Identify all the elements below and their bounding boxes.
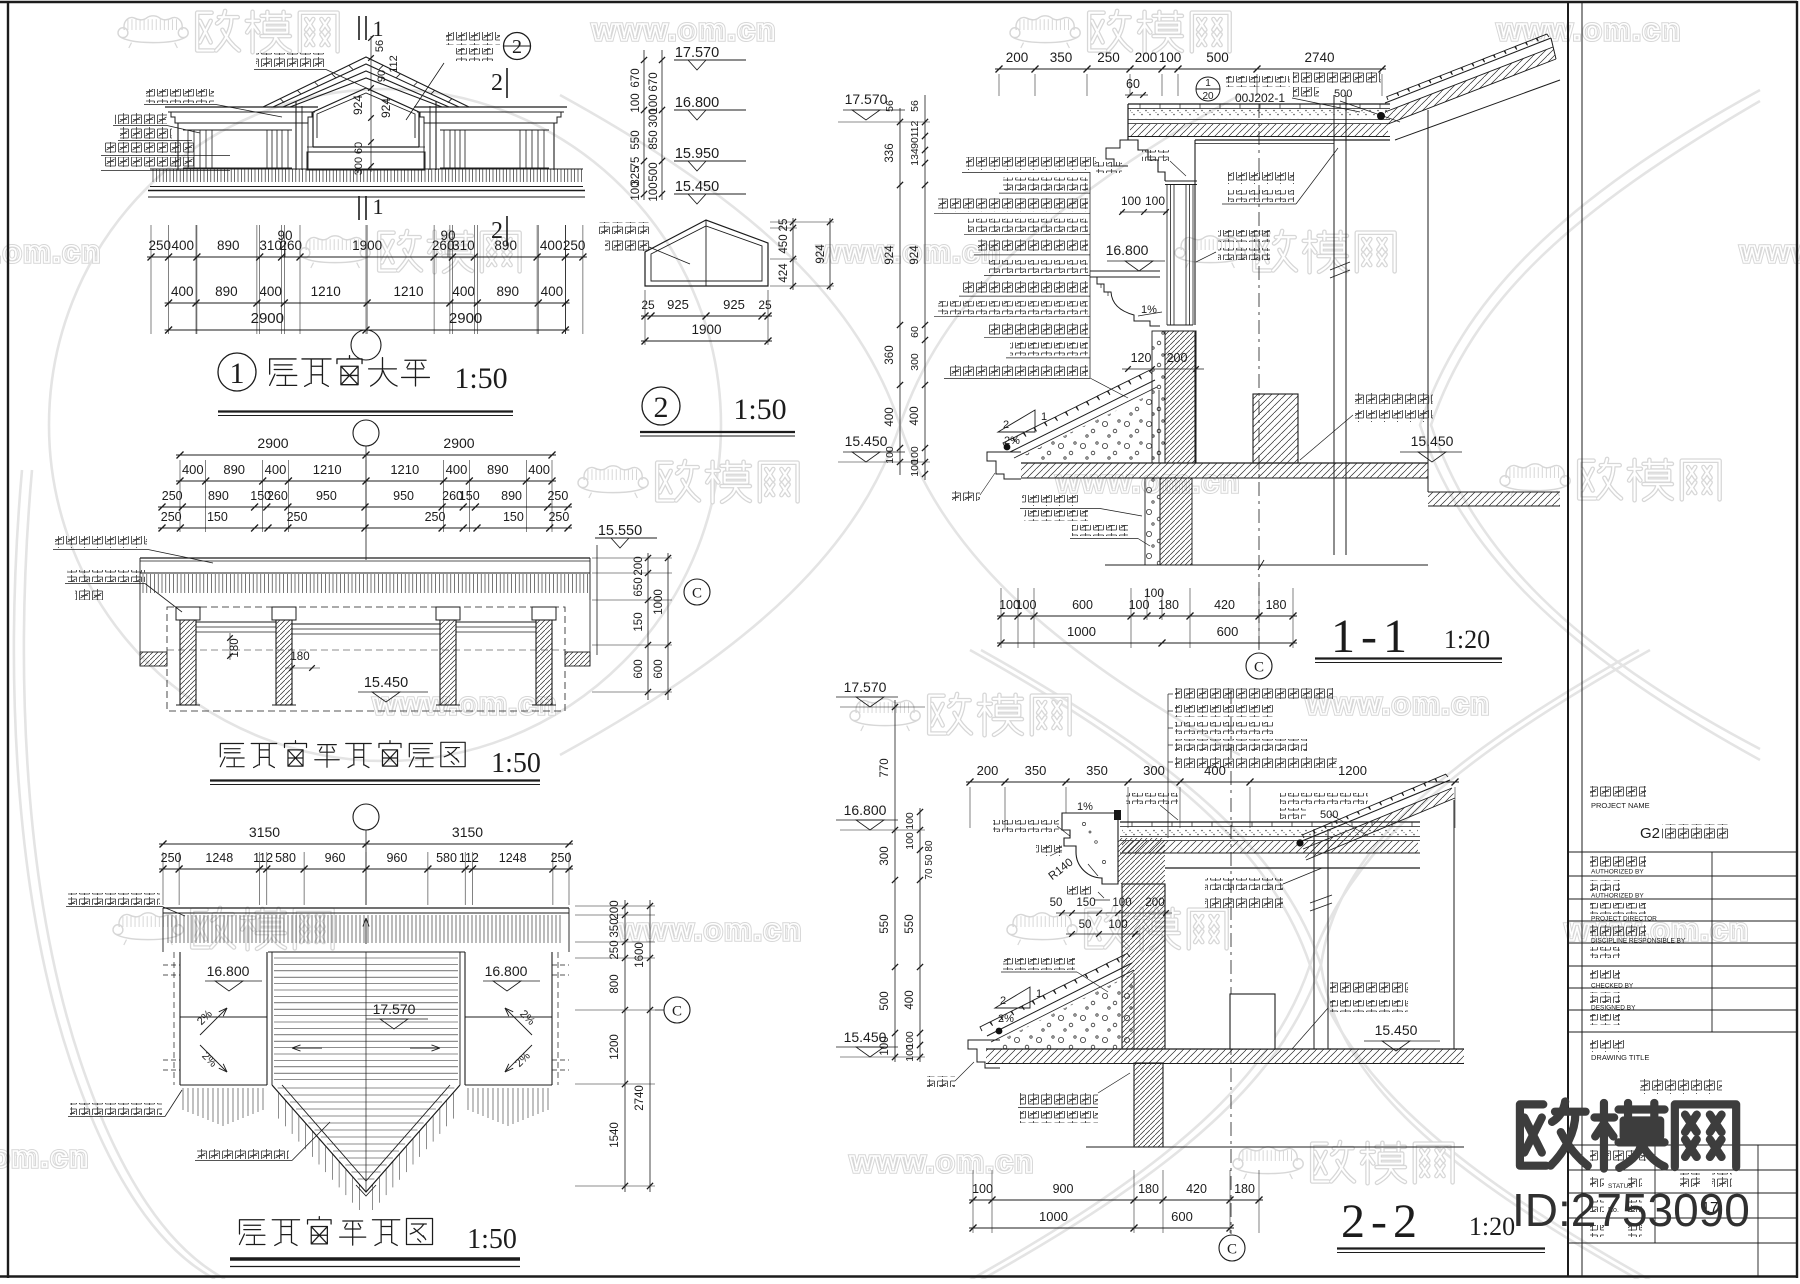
svg-text:15.450: 15.450 [1375, 1022, 1418, 1038]
svg-text:C: C [672, 1004, 682, 1020]
svg-text:400: 400 [909, 406, 921, 425]
svg-text:80: 80 [924, 840, 935, 852]
svg-text:2-2: 2-2 [1341, 1195, 1423, 1248]
svg-text:1200: 1200 [609, 1034, 621, 1060]
svg-text:1:20: 1:20 [1469, 1212, 1515, 1241]
svg-text:60: 60 [1126, 77, 1140, 91]
svg-text:360: 360 [884, 345, 896, 364]
svg-text:AUTHORIZED BY: AUTHORIZED BY [1591, 869, 1644, 876]
svg-text:1: 1 [1205, 78, 1211, 89]
svg-text:15.450: 15.450 [1411, 433, 1454, 449]
svg-text:350: 350 [1050, 50, 1073, 65]
svg-text:100: 100 [630, 181, 642, 200]
svg-text:C: C [692, 586, 702, 602]
svg-text:17.570: 17.570 [373, 1001, 416, 1017]
svg-text:1210: 1210 [393, 284, 423, 299]
svg-text:600: 600 [653, 659, 665, 678]
svg-text:60: 60 [909, 326, 921, 338]
svg-text:250: 250 [609, 940, 621, 959]
svg-text:1: 1 [373, 194, 384, 219]
svg-text:100: 100 [904, 1044, 916, 1062]
svg-text:400: 400 [884, 407, 896, 426]
svg-text:924: 924 [351, 95, 365, 115]
svg-text:2: 2 [512, 36, 522, 58]
svg-text:112: 112 [909, 120, 921, 137]
svg-text:15.550: 15.550 [598, 523, 642, 539]
svg-text:100: 100 [879, 1036, 891, 1055]
svg-text:2: 2 [1000, 995, 1006, 1007]
svg-text:200: 200 [1167, 351, 1188, 365]
svg-text:924: 924 [379, 98, 393, 118]
svg-text:150: 150 [207, 510, 228, 524]
svg-text:580: 580 [436, 851, 457, 865]
svg-text:180: 180 [1234, 1182, 1255, 1196]
svg-text:20: 20 [1202, 91, 1214, 102]
svg-text:890: 890 [501, 489, 522, 503]
svg-text:400: 400 [182, 462, 204, 477]
svg-text:1210: 1210 [311, 284, 341, 299]
svg-text:960: 960 [325, 851, 346, 865]
svg-text:890: 890 [487, 462, 509, 477]
svg-text:1:20: 1:20 [1444, 625, 1490, 654]
svg-text:15.450: 15.450 [845, 433, 888, 449]
svg-text:300: 300 [648, 108, 660, 127]
svg-text:1000: 1000 [1067, 624, 1096, 639]
svg-text:400: 400 [904, 990, 916, 1009]
svg-text:600: 600 [633, 659, 645, 678]
svg-text:1000: 1000 [653, 589, 665, 615]
svg-text:DRAWING TITLE: DRAWING TITLE [1591, 1053, 1649, 1062]
svg-text:300: 300 [879, 846, 891, 865]
svg-text:100: 100 [884, 446, 896, 464]
svg-text:400: 400 [452, 284, 475, 299]
svg-text:900: 900 [1053, 1182, 1074, 1196]
svg-text:100: 100 [1159, 50, 1182, 65]
svg-text:C: C [1254, 660, 1264, 676]
svg-text:25: 25 [758, 298, 772, 312]
svg-text:250: 250 [149, 238, 172, 253]
svg-text:112: 112 [459, 851, 479, 865]
svg-text:90: 90 [440, 228, 455, 243]
svg-text:300: 300 [353, 157, 365, 175]
svg-text:100: 100 [1016, 598, 1037, 612]
svg-text:PROJECT NAME: PROJECT NAME [1591, 801, 1650, 810]
svg-text:250: 250 [161, 851, 182, 865]
svg-text:400: 400 [540, 238, 563, 253]
svg-text:DESIGNED BY: DESIGNED BY [1591, 1005, 1636, 1012]
svg-text:670: 670 [648, 72, 660, 91]
svg-text:500: 500 [1206, 50, 1229, 65]
svg-text:670: 670 [630, 68, 642, 87]
svg-text:250: 250 [548, 510, 569, 524]
svg-text:200: 200 [1006, 50, 1029, 65]
svg-text:1: 1 [1036, 988, 1042, 1000]
svg-text:3150: 3150 [452, 824, 483, 840]
svg-text:3150: 3150 [249, 824, 280, 840]
svg-text:17.570: 17.570 [844, 679, 887, 695]
svg-text:www.om.cn: www.om.cn [849, 1144, 1035, 1179]
svg-text:250: 250 [287, 510, 308, 524]
svg-text:1600: 1600 [634, 942, 646, 968]
svg-text:400: 400 [172, 238, 195, 253]
svg-text:16.800: 16.800 [675, 95, 719, 111]
svg-text:25: 25 [778, 219, 790, 232]
svg-text:G2: G2 [1640, 825, 1660, 842]
svg-text:1900: 1900 [691, 322, 721, 337]
svg-text:16.800: 16.800 [1106, 242, 1149, 258]
svg-text:www.om.cn: www.om.cn [372, 686, 558, 721]
svg-text:400: 400 [541, 284, 564, 299]
svg-text:336: 336 [884, 143, 896, 162]
svg-text:400: 400 [528, 462, 550, 477]
svg-text:890: 890 [494, 238, 517, 253]
svg-text:134: 134 [909, 148, 921, 166]
svg-text:424: 424 [778, 263, 790, 283]
svg-text:50: 50 [1050, 897, 1063, 909]
svg-text:250: 250 [161, 510, 182, 524]
svg-text:400: 400 [171, 284, 194, 299]
svg-text:950: 950 [393, 489, 414, 503]
svg-text:180: 180 [1158, 598, 1179, 612]
svg-text:112: 112 [388, 55, 400, 73]
svg-text:450: 450 [778, 234, 790, 253]
svg-text:90: 90 [376, 70, 388, 82]
svg-text:1000: 1000 [1039, 1209, 1068, 1224]
svg-text:550: 550 [904, 914, 916, 933]
svg-text:1210: 1210 [390, 462, 419, 477]
svg-text:16.800: 16.800 [207, 963, 250, 979]
svg-text:180: 180 [1266, 598, 1287, 612]
svg-text:600: 600 [1171, 1209, 1193, 1224]
svg-text:PROJECT DIRECTOR: PROJECT DIRECTOR [1591, 916, 1657, 923]
svg-text:200: 200 [609, 900, 621, 919]
svg-text:850: 850 [648, 130, 660, 149]
svg-text:250: 250 [551, 851, 572, 865]
svg-text:100: 100 [1145, 194, 1165, 208]
svg-text:1248: 1248 [205, 851, 233, 865]
svg-text:AUTHORIZED BY: AUTHORIZED BY [1591, 893, 1644, 900]
svg-text:180: 180 [1138, 1182, 1159, 1196]
svg-text:600: 600 [1217, 624, 1239, 639]
svg-text:150: 150 [633, 612, 645, 631]
svg-text:500: 500 [1334, 88, 1352, 100]
svg-text:350: 350 [1025, 763, 1047, 778]
svg-text:100: 100 [1129, 598, 1150, 612]
svg-text:1:50: 1:50 [733, 393, 786, 426]
svg-text:50: 50 [1079, 919, 1092, 931]
svg-text:00J202-1: 00J202-1 [1235, 91, 1285, 105]
svg-text:550: 550 [879, 914, 891, 933]
svg-text:150: 150 [1076, 897, 1095, 909]
svg-text:DISCIPLINE RESPONSIBLE BY: DISCIPLINE RESPONSIBLE BY [1591, 938, 1686, 945]
svg-text:90: 90 [909, 137, 921, 149]
svg-text:C: C [1227, 1242, 1237, 1258]
svg-text:2%: 2% [998, 1013, 1014, 1025]
svg-text:925: 925 [723, 297, 745, 312]
svg-text:925: 925 [667, 297, 689, 312]
svg-text:56: 56 [374, 40, 386, 52]
svg-text:1200: 1200 [1338, 763, 1367, 778]
svg-text:500: 500 [879, 991, 891, 1010]
svg-text:25: 25 [641, 298, 655, 312]
svg-text:17.570: 17.570 [845, 91, 888, 107]
svg-text:500: 500 [648, 162, 660, 181]
svg-text:100: 100 [648, 182, 660, 201]
svg-text:890: 890 [497, 284, 520, 299]
svg-text:550: 550 [630, 130, 642, 149]
svg-text:924: 924 [909, 245, 921, 265]
svg-text:15.950: 15.950 [675, 146, 719, 162]
svg-text:350: 350 [1086, 763, 1108, 778]
svg-text:890: 890 [217, 238, 240, 253]
svg-text:924: 924 [815, 244, 827, 264]
svg-text:90: 90 [277, 228, 292, 243]
svg-text:200: 200 [633, 556, 645, 575]
svg-text:2: 2 [491, 70, 503, 96]
svg-text:420: 420 [1186, 1182, 1207, 1196]
svg-text:150: 150 [503, 510, 524, 524]
svg-text:50: 50 [924, 854, 935, 866]
svg-text:200: 200 [1135, 50, 1158, 65]
svg-text:17.570: 17.570 [675, 45, 719, 61]
svg-text:800: 800 [609, 974, 621, 993]
svg-text:100: 100 [972, 1182, 993, 1196]
svg-text:950: 950 [316, 489, 337, 503]
svg-text:60: 60 [353, 142, 365, 154]
svg-text:420: 420 [1214, 598, 1235, 612]
svg-text:1: 1 [230, 357, 245, 390]
svg-text:1210: 1210 [313, 462, 342, 477]
svg-text:250: 250 [1097, 50, 1120, 65]
svg-text:15.450: 15.450 [675, 179, 719, 195]
svg-text:56: 56 [884, 100, 896, 112]
svg-text:250: 250 [425, 510, 446, 524]
svg-text:100: 100 [630, 93, 642, 112]
svg-text:300: 300 [1143, 763, 1165, 778]
svg-text:260: 260 [267, 489, 288, 503]
svg-text:180: 180 [290, 651, 309, 663]
svg-text:1: 1 [373, 16, 384, 41]
svg-text:1:50: 1:50 [454, 362, 507, 395]
svg-text:www.om.cn: www.om.cn [0, 234, 102, 269]
svg-text:www.om.cn: www.om.cn [1739, 234, 1800, 269]
svg-text:960: 960 [386, 851, 407, 865]
svg-text:100: 100 [904, 812, 916, 830]
svg-text:250: 250 [563, 238, 586, 253]
svg-text:ID:2753090: ID:2753090 [1512, 1184, 1750, 1236]
svg-text:890: 890 [208, 489, 229, 503]
svg-text:120: 120 [1131, 351, 1152, 365]
svg-text:1-1: 1-1 [1331, 610, 1413, 663]
svg-text:400: 400 [259, 284, 282, 299]
svg-text:100: 100 [904, 832, 916, 850]
svg-text:400: 400 [265, 462, 287, 477]
svg-text:350: 350 [609, 918, 621, 937]
svg-text:600: 600 [1072, 598, 1093, 612]
svg-text:2740: 2740 [1304, 50, 1334, 65]
svg-text:1:50: 1:50 [467, 1224, 517, 1255]
svg-text:1%: 1% [1077, 801, 1093, 813]
svg-text:1540: 1540 [609, 1122, 621, 1148]
svg-text:250: 250 [547, 489, 568, 503]
svg-text:890: 890 [223, 462, 245, 477]
svg-text:2900: 2900 [251, 310, 284, 327]
svg-text:16.800: 16.800 [844, 802, 887, 818]
svg-text:890: 890 [215, 284, 238, 299]
svg-text:400: 400 [1204, 763, 1226, 778]
svg-text:770: 770 [879, 758, 891, 777]
svg-text:2740: 2740 [634, 1085, 646, 1111]
svg-text:112: 112 [253, 851, 273, 865]
svg-text:www.om.cn: www.om.cn [1496, 12, 1682, 47]
svg-text:924: 924 [884, 245, 896, 265]
svg-text:www.om.cn: www.om.cn [591, 12, 777, 47]
svg-text:1:50: 1:50 [491, 748, 541, 779]
svg-text:400: 400 [446, 462, 468, 477]
svg-text:16.800: 16.800 [485, 963, 528, 979]
svg-text:1248: 1248 [499, 851, 527, 865]
svg-text:300: 300 [909, 353, 921, 371]
svg-text:580: 580 [275, 851, 296, 865]
svg-text:100: 100 [1121, 194, 1141, 208]
svg-text:2900: 2900 [257, 435, 288, 451]
svg-text:200: 200 [977, 763, 999, 778]
svg-text:www.om.cn: www.om.cn [0, 1139, 90, 1174]
svg-text:56: 56 [909, 100, 921, 112]
svg-text:650: 650 [633, 577, 645, 596]
svg-text:1: 1 [1041, 411, 1047, 423]
svg-text:15.450: 15.450 [364, 675, 408, 691]
svg-text:500: 500 [1320, 809, 1338, 821]
svg-text:2: 2 [1003, 419, 1009, 431]
svg-text:2: 2 [654, 391, 669, 424]
svg-text:250: 250 [162, 489, 183, 503]
svg-text:CHECKED BY: CHECKED BY [1591, 983, 1634, 990]
svg-text:70: 70 [924, 868, 935, 880]
svg-text:2900: 2900 [443, 435, 474, 451]
